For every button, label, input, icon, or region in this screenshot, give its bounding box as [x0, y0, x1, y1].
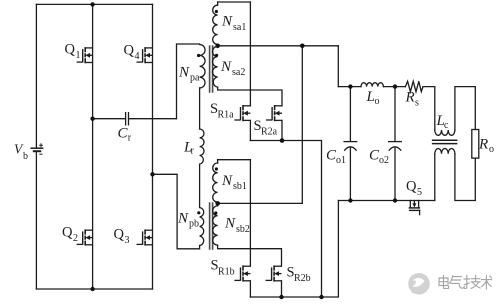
- svg-text:Q: Q: [65, 42, 76, 58]
- svg-text:Q: Q: [114, 227, 125, 243]
- svg-text:N: N: [224, 216, 236, 232]
- svg-text:sb1: sb1: [233, 181, 247, 192]
- svg-text:o1: o1: [336, 155, 346, 166]
- svg-text:r: r: [128, 133, 132, 144]
- svg-text:sa1: sa1: [233, 22, 246, 33]
- svg-text:pb: pb: [189, 219, 199, 230]
- svg-text:o: o: [489, 144, 494, 155]
- svg-text:Q: Q: [406, 179, 417, 195]
- svg-text:c: c: [444, 120, 449, 131]
- svg-text:L: L: [366, 89, 375, 105]
- svg-text:Q: Q: [124, 43, 135, 59]
- svg-text:sa2: sa2: [232, 67, 245, 78]
- svg-text:R1a: R1a: [218, 110, 235, 121]
- svg-text:s: s: [415, 98, 419, 109]
- svg-text:5: 5: [417, 187, 422, 198]
- svg-text:sb2: sb2: [236, 224, 250, 235]
- svg-text:1: 1: [76, 50, 81, 61]
- svg-text:N: N: [221, 173, 233, 189]
- svg-text:o: o: [375, 96, 380, 107]
- svg-text:b: b: [23, 151, 28, 162]
- svg-text:R2b: R2b: [294, 273, 311, 284]
- svg-text:N: N: [178, 65, 190, 81]
- svg-text:N: N: [220, 59, 232, 75]
- svg-text:N: N: [221, 14, 233, 30]
- svg-text:2: 2: [73, 233, 78, 244]
- svg-text:R: R: [405, 90, 415, 106]
- svg-text:N: N: [177, 211, 189, 227]
- svg-text:r: r: [191, 146, 195, 157]
- svg-text:o2: o2: [379, 155, 389, 166]
- svg-text:R2a: R2a: [261, 127, 278, 138]
- svg-text:3: 3: [125, 235, 130, 246]
- svg-text:4: 4: [135, 51, 140, 62]
- svg-text:pa: pa: [190, 73, 200, 84]
- svg-text:Q: Q: [62, 225, 73, 241]
- svg-text:R1b: R1b: [218, 266, 235, 277]
- svg-text:R: R: [478, 137, 488, 153]
